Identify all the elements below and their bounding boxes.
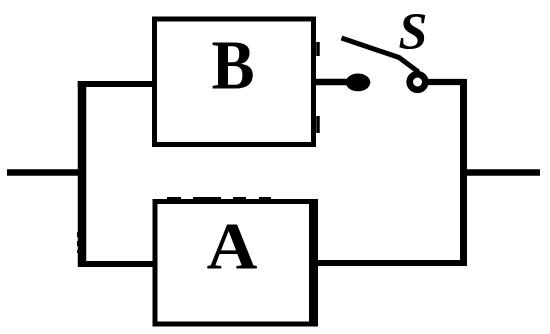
wire B to switch dot xyxy=(314,79,352,85)
wire bottom branch left xyxy=(78,261,157,267)
svg-text:A: A xyxy=(207,209,258,283)
wire right terminal xyxy=(463,169,540,176)
wire left bus xyxy=(79,81,83,267)
wire switch to right bus xyxy=(428,79,466,85)
wire right bus xyxy=(460,79,467,266)
wire bottom branch right xyxy=(311,260,467,266)
box B xyxy=(155,19,319,145)
wire top branch xyxy=(78,81,157,87)
wire left terminal xyxy=(7,169,86,175)
box A xyxy=(155,199,314,327)
switch S blade xyxy=(342,38,419,72)
switch S contact dot xyxy=(346,74,371,92)
switch S hinge circle xyxy=(410,74,426,90)
svg-text:B: B xyxy=(211,26,254,104)
svg-text:S: S xyxy=(399,4,428,61)
